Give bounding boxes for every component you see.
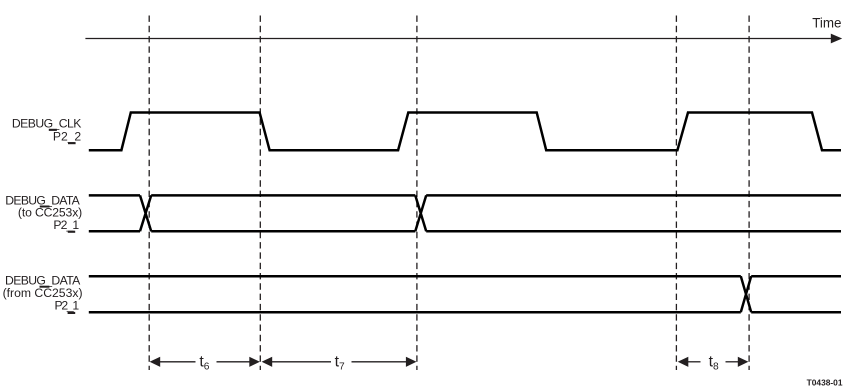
timing marker dashed line 5 [748, 16, 750, 371]
underscore marks of DEBUG_DATA and P2_1 labels (row 2) [40, 286, 76, 314]
timing marker dashed line 2 [259, 16, 261, 371]
timing marker dashed line 4 [675, 16, 677, 371]
timing measure t6 [150, 357, 260, 367]
time axis arrow [85, 34, 842, 44]
timing marker dashed line 1 [148, 16, 150, 371]
DEBUG_DATA (to CC253x) waveform with transition crossings [89, 195, 841, 231]
svg-text:P2_2: P2_2 [53, 129, 82, 143]
DEBUG_DATA (from CC253x) waveform with transition crossing [89, 276, 841, 312]
svg-text:Time: Time [812, 16, 841, 31]
signal label DEBUG_CLK P2_2 [12, 117, 82, 144]
svg-text:P2_1: P2_1 [53, 218, 79, 232]
signal label DEBUG_DATA (from CC253x) P2_1 [3, 274, 83, 313]
timing measure t8 [678, 357, 749, 367]
svg-text:t6: t6 [199, 353, 209, 372]
svg-text:T0438-01: T0438-01 [807, 378, 843, 388]
signal label DEBUG_DATA (to CC253x) P2_1 [5, 194, 82, 232]
timing measure t7 [262, 357, 417, 367]
timing marker dashed line 3 [416, 16, 418, 371]
underscore marks of DEBUG_DATA and P2_1 labels (row 1) [40, 206, 75, 233]
underscore marks of DEBUG_CLK and P2_2 labels [49, 129, 76, 144]
svg-text:P2_1: P2_1 [55, 298, 80, 312]
DEBUG_CLK waveform [89, 113, 841, 151]
svg-text:t8: t8 [709, 353, 719, 372]
svg-text:t7: t7 [335, 353, 345, 372]
